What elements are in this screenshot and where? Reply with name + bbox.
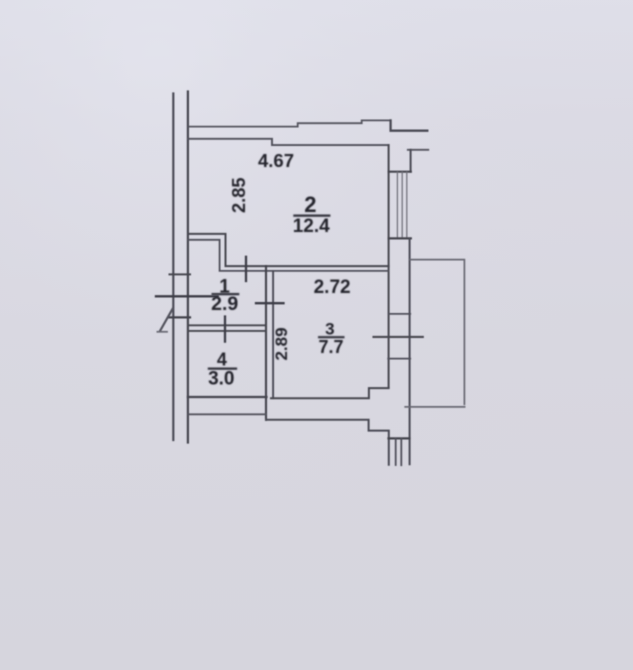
svg-text:3: 3 [325, 320, 334, 339]
shaft rung 1 [389, 313, 411, 315]
building edge line (stair side) [172, 94, 174, 441]
outer east wall above window [410, 150, 412, 172]
room 1 fraction line [212, 293, 240, 295]
door tick room2-room1 [245, 257, 247, 281]
north outer wall right segment [391, 120, 428, 130]
room 4 fraction line [208, 368, 237, 370]
window glazing line 3 [406, 172, 408, 238]
door tick room1-room4 [224, 317, 226, 342]
entry tick lower [169, 316, 190, 318]
wall room1/room2 inner line [189, 240, 389, 271]
stair hatch line 1 [395, 439, 397, 466]
apartment west wall [187, 92, 189, 443]
room3 south wall with step [271, 388, 389, 398]
svg-text:4.67: 4.67 [258, 150, 294, 171]
room 3 fraction line [318, 336, 345, 338]
svg-text:2: 2 [304, 192, 316, 217]
entry door swing foot [157, 331, 167, 333]
entry door swing diagonal [160, 309, 172, 331]
wall room1/room4 upper line [189, 324, 267, 326]
outer east wall below window [409, 238, 411, 464]
north inner wall [188, 139, 389, 145]
outer south line under room4 [189, 413, 266, 415]
window glazing line 2 [401, 172, 403, 238]
window bottom tick [389, 237, 411, 239]
north outer wall (stepped) [189, 120, 391, 126]
wall room1/room4 lower line [189, 330, 267, 332]
shaft top edge [408, 149, 429, 151]
stair hatch top tick [389, 437, 410, 439]
shaft rung 2 [388, 358, 410, 360]
east wall of rooms 2 and 3 [388, 145, 390, 388]
room 2 fraction line [293, 214, 330, 216]
balcony outline [410, 260, 464, 405]
svg-text:2.89: 2.89 [272, 327, 291, 360]
svg-text:12.4: 12.4 [293, 216, 330, 237]
balcony bottom edge [405, 406, 464, 408]
balcony door tick [374, 336, 423, 338]
svg-text:2.85: 2.85 [228, 177, 249, 213]
wall rooms1|3 east line [272, 271, 274, 398]
window top tick [389, 171, 411, 173]
svg-text:7.7: 7.7 [318, 337, 343, 357]
window glazing line 1 [396, 172, 398, 238]
wall rooms1|3 west line [265, 266, 267, 420]
wall room1/room2 outer line [189, 234, 389, 266]
entry tick upper [170, 273, 191, 275]
svg-text:3.0: 3.0 [208, 369, 234, 390]
door tick room1-room3 [256, 302, 284, 304]
svg-text:4: 4 [217, 350, 227, 370]
svg-text:2.72: 2.72 [314, 277, 351, 298]
entry dimension tick [156, 295, 218, 297]
outer south line under room3 [266, 420, 389, 465]
stair hatch line 2 [400, 439, 402, 466]
svg-text:2.9: 2.9 [211, 293, 238, 315]
room4 south wall [188, 396, 267, 398]
